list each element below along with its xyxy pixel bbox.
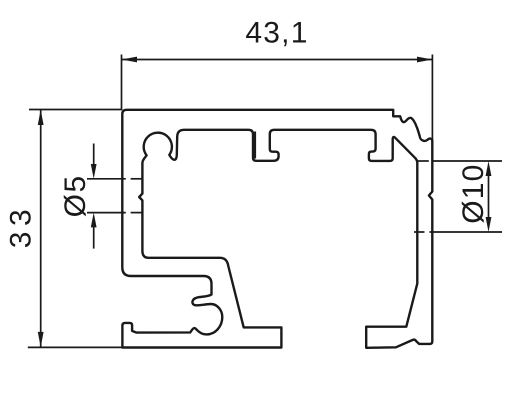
33 top extension line [29, 109, 122, 111]
5 upper arrowhead (down) [91, 164, 97, 179]
svg-text:Ø5: Ø5 [59, 174, 92, 217]
profile outline [122, 110, 432, 348]
10 upper tangent line [417, 160, 429, 162]
5 lower tangent line [87, 212, 126, 214]
43,1 right extension line [431, 55, 433, 141]
10 lower tangent line [414, 231, 425, 233]
10 dimension line [488, 174, 490, 219]
svg-text:33: 33 [5, 204, 38, 248]
33 bottom extension line [28, 346, 122, 348]
43,1 left extension line [121, 55, 123, 111]
10 bottom arrowhead (down) [486, 217, 492, 232]
5 dimension leader lower [93, 225, 95, 249]
33 bottom arrowhead [38, 332, 44, 348]
43,1 right arrowhead [417, 57, 433, 63]
svg-text:43,1: 43,1 [245, 16, 308, 49]
10 top arrowhead (up) [486, 161, 492, 176]
33 top arrowhead [38, 110, 44, 126]
33 dimension line [40, 110, 42, 348]
5 dimension leader upper [93, 144, 95, 167]
dimension graphics [28, 55, 502, 348]
slot1 fin double wall [254, 132, 256, 159]
5 lower arrowhead (up) [91, 213, 97, 228]
svg-text:Ø10: Ø10 [457, 163, 490, 223]
5 upper tangent line [87, 178, 126, 180]
43,1 left arrowhead [122, 57, 138, 63]
43,1 dimension line [122, 59, 433, 61]
